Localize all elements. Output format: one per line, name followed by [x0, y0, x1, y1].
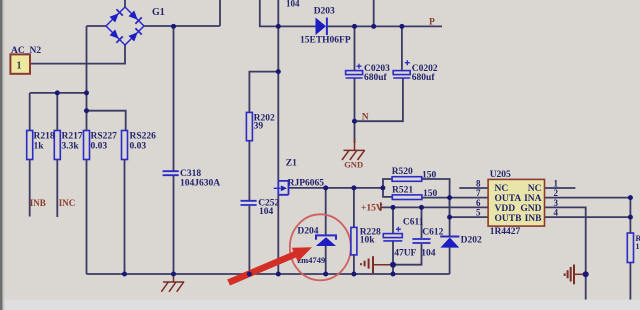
wire up from corner x220	[219, 0, 221, 26]
node bus Z1	[276, 272, 281, 277]
wire jog from top x259.8 to node	[260, 0, 279, 26]
wire C252 bottom	[248, 206, 250, 274]
svg-text:104: 104	[286, 0, 300, 9]
svg-text:RJP6065: RJP6065	[288, 179, 325, 189]
svg-text:D203: D203	[314, 7, 335, 17]
annotation red arrow	[227, 247, 312, 285]
wire N node horizontal	[355, 79, 403, 122]
capacitor C0203	[346, 64, 363, 78]
node rail C611	[391, 205, 396, 210]
wire bridge right vertex to x220	[144, 25, 220, 27]
bridge diode top-right	[129, 11, 138, 20]
node R202 branch	[276, 69, 281, 74]
wire C0203 top lead	[354, 26, 356, 70]
svg-text:N: N	[362, 113, 369, 123]
resistor RS226	[122, 131, 128, 160]
node rail C612	[419, 205, 424, 210]
wire sub-bus to RS226	[87, 111, 126, 131]
resistor (right edge)	[627, 233, 633, 263]
capacitor C612	[412, 239, 430, 243]
svg-text:P: P	[429, 18, 435, 28]
svg-text:Z1: Z1	[286, 159, 297, 169]
diode D202	[440, 237, 459, 248]
svg-text:1: 1	[636, 242, 640, 251]
svg-text:C611: C611	[403, 218, 424, 228]
wire D202 bottom to bus	[449, 248, 451, 274]
svg-text:GND: GND	[344, 160, 363, 170]
svg-text:AC_N2: AC_N2	[11, 46, 41, 56]
svg-text:15ETH06FP: 15ETH06FP	[300, 36, 351, 46]
node pin5 vert	[447, 215, 452, 220]
svg-text:+15V: +15V	[361, 204, 383, 214]
resistor R228	[351, 227, 357, 255]
wire C318 bottom lead	[173, 176, 175, 274]
node bus RS227	[84, 90, 89, 95]
node N	[352, 119, 357, 124]
svg-text:3.3k: 3.3k	[62, 142, 80, 152]
svg-text:1: 1	[554, 179, 559, 189]
bridge diode bottom-right	[129, 32, 138, 41]
svg-text:150: 150	[422, 171, 437, 181]
wire R202 to C252	[248, 141, 250, 200]
node gate R520	[380, 185, 385, 190]
pin 4 line	[545, 216, 631, 218]
wire D203 cathode to P	[328, 25, 443, 27]
svg-text:R218: R218	[34, 132, 55, 142]
wire bus down to R217	[56, 93, 58, 131]
wire resistor bus y92.9	[30, 92, 87, 94]
svg-text:680uf: 680uf	[412, 73, 436, 83]
wire C611 top lead	[392, 207, 394, 233]
svg-text:0.03: 0.03	[91, 142, 108, 152]
svg-text:8: 8	[476, 179, 481, 189]
wire N node down toward GND	[354, 121, 356, 143]
resistor R218	[27, 131, 33, 160]
wire R520 left lead	[383, 179, 392, 188]
node bus R228	[351, 272, 356, 277]
pin 2 line	[545, 197, 631, 199]
wire R228 bottom lead	[353, 255, 355, 274]
wire branch to R202	[249, 72, 278, 113]
wire mosfet source to bus	[277, 195, 279, 274]
svg-text:C318: C318	[180, 169, 201, 179]
svg-text:R521: R521	[392, 186, 413, 196]
ground (slant style)	[161, 274, 184, 292]
svg-text:47UF: 47UF	[394, 249, 416, 259]
svg-text:1k: 1k	[34, 142, 45, 152]
node pin2 right	[628, 195, 633, 200]
resistor RS227	[84, 131, 90, 160]
svg-text:R520: R520	[392, 167, 413, 177]
transistor Z1 arrow	[281, 185, 287, 191]
node C0202 top	[399, 24, 404, 29]
svg-text:U205: U205	[490, 170, 511, 180]
svg-text:NC: NC	[528, 184, 542, 194]
wire R228 top lead	[353, 188, 355, 228]
wire top of bridge	[124, 0, 126, 7]
pin 3 line then down	[545, 207, 586, 299]
wire R521 left lead	[383, 188, 392, 197]
node bus C318	[171, 272, 176, 277]
pin 5 line	[450, 198, 489, 218]
capacitor C318	[163, 171, 179, 175]
wire top stub x373.7	[373, 0, 375, 26]
bridge diode top-left	[110, 13, 119, 22]
wire RS227 bottom to bus	[86, 160, 88, 275]
annotation red circle	[290, 214, 351, 280]
svg-text:OUTA: OUTA	[495, 194, 522, 204]
svg-text:INA: INA	[524, 194, 542, 204]
svg-text:39: 39	[254, 122, 264, 132]
wire bus down to R218	[29, 93, 31, 131]
capacitor C252	[241, 201, 257, 205]
svg-text:RS227: RS227	[91, 132, 118, 142]
node bus RS226	[122, 272, 127, 277]
capacitor C0202	[393, 60, 410, 78]
diode D203	[316, 18, 327, 36]
wire gate net to R520 area	[289, 187, 383, 189]
svg-text:1: 1	[17, 61, 22, 72]
wire C0202 top lead	[401, 26, 403, 70]
pin 8 stub	[459, 187, 488, 189]
node bus C611	[391, 272, 396, 277]
node pin7 vert	[447, 195, 452, 200]
diode D204 (zener)	[316, 235, 336, 246]
wire D204 top lead	[325, 188, 327, 235]
svg-text:2: 2	[554, 188, 559, 198]
window left edge	[0, 0, 3, 310]
svg-text:5: 5	[476, 208, 481, 218]
ground (bar style)	[565, 265, 584, 285]
node bridge right	[171, 24, 176, 29]
resistor R521	[392, 195, 422, 200]
node C0203 top	[352, 24, 357, 29]
svg-text:10k: 10k	[360, 236, 376, 246]
svg-text:4: 4	[554, 208, 559, 218]
svg-text:104: 104	[259, 207, 274, 217]
wire bridge left vertex to left then down to resistor bus	[87, 26, 107, 131]
node bus R217	[55, 90, 60, 95]
wire right resistor top	[629, 198, 631, 233]
wire R521 right to pin7	[422, 197, 450, 199]
connector AC_N2 box	[10, 54, 30, 73]
svg-text:INC: INC	[59, 198, 76, 208]
bridge diode bottom-left	[110, 30, 119, 39]
node bus C252	[247, 272, 252, 277]
svg-text:D202: D202	[461, 236, 482, 246]
wire main ground bus	[87, 273, 450, 275]
svg-text:0.03: 0.03	[130, 142, 147, 152]
svg-text:GND: GND	[520, 204, 541, 214]
node D203 anode	[276, 24, 281, 29]
wire right resistor bottom	[629, 263, 631, 300]
svg-text:NC: NC	[495, 184, 509, 194]
svg-text:R217: R217	[62, 132, 83, 142]
wire AC connector to bridge bottom	[31, 45, 126, 64]
node C611 gnd	[390, 262, 396, 268]
node pin4 right	[628, 215, 633, 220]
svg-text:INB: INB	[30, 198, 46, 208]
node top stub	[371, 24, 376, 29]
capacitor C611	[383, 227, 402, 241]
svg-text:1R4427: 1R4427	[490, 227, 521, 237]
svg-text:680uf: 680uf	[364, 73, 388, 83]
svg-text:G1: G1	[152, 7, 165, 18]
wire C611 bottom	[392, 240, 394, 274]
wire R520 right to vertical	[422, 179, 450, 236]
ground (bar style)	[361, 256, 390, 274]
resistor R217	[54, 131, 60, 160]
wire +15V rail / pin6	[381, 206, 488, 209]
transistor Z1 body	[274, 181, 289, 195]
pin 1 stub	[545, 187, 576, 189]
IC U205 body	[488, 179, 544, 226]
bridge diamond	[106, 7, 144, 45]
resistor R520	[392, 177, 422, 182]
wire D204 bottom lead	[325, 246, 327, 274]
wire C612 top lead	[421, 207, 423, 238]
node sub-bus	[84, 108, 89, 113]
wire C318 top lead	[173, 26, 175, 170]
pin names	[495, 184, 543, 224]
node gate D204	[323, 185, 328, 190]
pin 7 line	[450, 197, 489, 199]
wire D203 anode	[278, 25, 315, 27]
wire R218 bottom stub	[29, 160, 31, 217]
node IC gnd	[583, 271, 589, 277]
ground GND	[342, 138, 365, 160]
svg-text:104: 104	[421, 249, 436, 259]
wire main vertical x278.3 top to mosfet	[277, 0, 279, 181]
svg-text:7: 7	[476, 188, 481, 198]
svg-text:VDD: VDD	[495, 204, 516, 214]
wire C0203 bottom to N node	[354, 79, 356, 122]
svg-text:OUTB: OUTB	[495, 214, 523, 224]
wire RS226 bottom to bus	[124, 160, 126, 275]
svg-text:6: 6	[476, 198, 481, 208]
node bus D204	[323, 272, 328, 277]
svg-text:RS226: RS226	[130, 132, 157, 142]
svg-text:3: 3	[554, 198, 559, 208]
wire C612 bottom to junction	[393, 244, 422, 265]
svg-text:104J630A: 104J630A	[180, 179, 220, 189]
power +15V	[380, 202, 382, 211]
svg-text:INB: INB	[525, 214, 543, 224]
svg-text:150: 150	[423, 189, 438, 199]
resistor R202	[246, 112, 252, 140]
node gate R228	[351, 185, 356, 190]
wire R217 bottom stub	[56, 160, 58, 218]
